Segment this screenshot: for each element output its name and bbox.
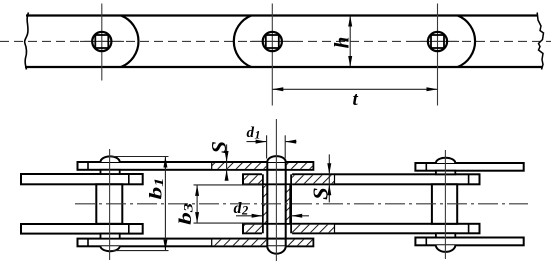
outer plate top bar	[78, 162, 314, 170]
S right arrow up	[327, 184, 331, 195]
center pin right edge	[285, 162, 287, 246]
b3 arrow down	[195, 212, 199, 223]
dimension t arrow right	[427, 87, 438, 91]
center pin left edge	[266, 162, 268, 246]
dimension t arrow left	[272, 87, 283, 91]
pin 1 square	[95, 35, 108, 48]
b1 extension bottom	[111, 250, 169, 252]
pin 1 circle	[92, 32, 111, 51]
band top edge	[26, 14, 538, 16]
center pin dome top	[267, 156, 285, 162]
center pin vertical centerline	[275, 119, 277, 261]
bushing right wall	[286, 184, 290, 224]
svg-text:d2: d2	[234, 200, 249, 218]
bushing left wall	[263, 184, 267, 224]
right pin collar upper	[436, 171, 455, 175]
S left arrow up	[225, 170, 229, 181]
left roller	[96, 184, 122, 224]
left pin collar lower	[101, 234, 120, 239]
S left tail line	[226, 144, 228, 176]
pin 3 vertical centerline / t extension	[437, 4, 439, 106]
pin 1 horizontal crosshair	[80, 40, 124, 42]
left inner plate (top)	[21, 174, 143, 184]
b3 dimension line	[196, 185, 198, 223]
pin 3 circle	[428, 32, 447, 51]
right pin dome bottom	[436, 245, 455, 252]
inner plate top break line	[334, 174, 336, 184]
inner plate bottom break line	[334, 224, 336, 234]
dimension d1 line right	[285, 141, 296, 143]
pin 2 square	[266, 35, 279, 48]
pin 1 vertical centerline	[101, 4, 103, 81]
left pin dome bottom	[101, 246, 120, 251]
centerline (dashed) of side view	[0, 40, 551, 42]
b3 arrow up	[195, 185, 199, 196]
outer plate bottom left step	[87, 239, 89, 247]
b1 arrow down	[163, 240, 167, 251]
left pin dome top	[101, 156, 120, 162]
pin 3 horizontal crosshair	[415, 40, 459, 42]
plate end arc (left of pin 2)	[234, 16, 251, 68]
S right arrow down	[327, 163, 331, 174]
inner plate bottom hatch right	[291, 225, 334, 233]
right outer plate top step	[425, 163, 427, 171]
right pin vertical centerline	[444, 150, 446, 259]
svg-text:h: h	[329, 37, 353, 49]
dimension h arrow down	[348, 56, 352, 67]
dimension d1 arrow left	[256, 140, 267, 144]
outer plate top left step	[87, 162, 89, 170]
d2 line right	[291, 215, 309, 217]
bushing hole whiteout bottom	[262, 222, 292, 234]
b3 extension top	[194, 184, 263, 186]
left break line	[25, 13, 29, 70]
band bottom edge	[25, 66, 542, 68]
dimension t line	[272, 88, 437, 90]
outer plate bottom hatch right	[286, 240, 312, 246]
inner plate top step right	[468, 174, 470, 184]
outer plate top hatch right	[286, 163, 312, 169]
right pin collar lower	[436, 233, 455, 237]
plate end arc (right of pin 1)	[121, 16, 138, 68]
dimension d1 line left	[247, 141, 267, 143]
left pin vertical centerline	[109, 149, 111, 260]
center pin dome bottom	[267, 246, 285, 253]
inner plate bottom hatch left	[244, 225, 263, 233]
outer plate bottom bar	[78, 239, 314, 247]
right outer plate bottom	[415, 238, 523, 246]
pin 2 circle	[263, 32, 282, 51]
inner plate top hatch right	[291, 175, 334, 183]
b1 arrow up	[163, 157, 167, 168]
S right tail line	[328, 154, 330, 202]
left inner plate top step	[128, 174, 130, 184]
bushing top end face	[263, 183, 291, 185]
bushing bottom end face	[263, 223, 291, 225]
inner link plate bottom (center-right)	[243, 224, 480, 234]
pin 2 horizontal crosshair	[250, 40, 294, 42]
inner plate top hatch left	[244, 175, 263, 183]
outer plate top break line	[211, 162, 213, 170]
dimension h line	[349, 17, 351, 67]
pin 2 vertical centerline / t extension	[271, 4, 273, 106]
inner link plate top (center-right)	[243, 174, 480, 184]
left inner plate (bottom)	[21, 224, 143, 234]
plate end arc (right of pin 3)	[458, 16, 475, 68]
outer plate bottom break line	[211, 239, 213, 247]
right roller	[432, 184, 457, 224]
bushing hole whiteout top	[262, 173, 292, 186]
inner plate bottom step right	[468, 224, 470, 234]
d2 arrow left	[252, 214, 263, 218]
bushing hole edge right	[290, 174, 292, 233]
d2 arrow right	[291, 214, 302, 218]
right outer plate bottom step	[425, 238, 427, 246]
left pin collar upper	[101, 170, 120, 174]
d1 extension line left	[266, 135, 268, 158]
right pin dome top	[436, 158, 455, 163]
pin 3 square	[431, 35, 444, 48]
outer plate bottom hatch left	[212, 240, 267, 246]
right outer plate top	[415, 163, 523, 171]
outer plate top hatch left	[212, 163, 267, 169]
dimension d1 arrow right	[285, 140, 296, 144]
bushing hole edge left	[262, 174, 264, 233]
main horizontal centerline (dash-dot)	[75, 203, 528, 205]
left inner plate bottom step	[128, 224, 130, 234]
b1 extension top	[110, 156, 169, 158]
dimension h arrow up	[348, 16, 352, 27]
S left arrow down	[225, 151, 229, 162]
d2 leader line left	[236, 215, 263, 217]
svg-text:t: t	[353, 89, 359, 110]
b1 dimension line	[164, 157, 166, 251]
b3 extension bottom	[194, 222, 263, 224]
svg-text:d1: d1	[247, 125, 261, 142]
right break line	[537, 13, 543, 70]
d1 extension line right	[284, 135, 286, 158]
